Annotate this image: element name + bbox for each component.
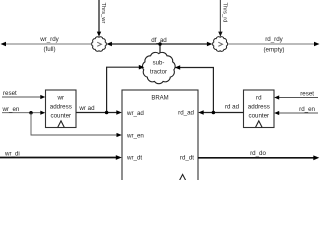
svg-text:wr_dt: wr_dt (126, 155, 142, 162)
subtractor cloud (142, 52, 175, 83)
svg-text:BRAM: BRAM (151, 96, 168, 102)
svg-text:tractor: tractor (150, 70, 167, 76)
wr address counter U1 (46, 90, 77, 128)
wire wr_en (left) (2, 106, 46, 115)
svg-text:wr_ad: wr_ad (126, 110, 144, 117)
wire wr_ad to subtractor (107, 65, 145, 113)
svg-text:Thrs_wr: Thrs_wr (100, 3, 106, 24)
wire wr_rdy (full) output (1, 36, 92, 53)
svg-text:rd_en: rd_en (299, 106, 315, 113)
wire rd_ad to subtractor (175, 65, 214, 112)
rd address counter U3 (244, 90, 275, 128)
wire rd_en (right) (274, 106, 318, 115)
svg-text:wr ad: wr ad (78, 105, 95, 112)
svg-text:rd_rdy: rd_rdy (265, 36, 283, 43)
svg-text:df_ad: df_ad (151, 37, 167, 44)
svg-text:reset: reset (300, 91, 314, 98)
svg-text:rd_ad: rd_ad (178, 110, 194, 117)
clock triangle (wr counter) (58, 121, 65, 128)
wire rd ad (counter to BRAM) (198, 104, 243, 115)
svg-text:rd: rd (256, 95, 262, 102)
comparator (rd, empty flag) (213, 37, 228, 52)
svg-text:address: address (248, 104, 270, 111)
svg-text:counter: counter (50, 113, 71, 120)
svg-text:reset: reset (3, 90, 17, 97)
wire wr_di input (0, 150, 122, 160)
svg-text:wr: wr (57, 95, 65, 102)
svg-text:rd_dt: rd_dt (180, 155, 194, 162)
wire reset (right) (274, 91, 318, 100)
svg-text:(empty): (empty) (264, 47, 285, 54)
wire wr ad (counter to BRAM) (76, 105, 122, 115)
wire Thrs_wr (97, 0, 106, 37)
svg-text:wr_en: wr_en (2, 106, 20, 113)
wire df_ad (subtractor output to both comparators) (106, 37, 212, 54)
wire rd_do output (198, 150, 319, 160)
svg-text:rd ad: rd ad (225, 104, 240, 111)
svg-text:counter: counter (248, 113, 269, 120)
comparator (wr, full flag) (92, 37, 107, 52)
wire wr_en branch to BRAM (31, 113, 122, 137)
svg-text:Thrs_rd: Thrs_rd (221, 3, 227, 23)
wire rd_rdy (empty) output (228, 36, 320, 54)
wire Thrs_rd (218, 0, 227, 37)
svg-text:address: address (50, 104, 72, 111)
svg-text:rd_do: rd_do (250, 150, 266, 157)
svg-text:wr_rdy: wr_rdy (39, 36, 59, 43)
clock triangle (BRAM) (179, 174, 186, 181)
svg-text:sub-: sub- (153, 61, 165, 67)
svg-text:(full): (full) (43, 46, 55, 53)
wire reset (left) (2, 90, 45, 99)
clock triangle (rd counter) (256, 121, 263, 128)
svg-text:wr_di: wr_di (4, 150, 20, 157)
svg-text:wr_en: wr_en (126, 132, 144, 139)
BRAM U2 (122, 90, 198, 185)
